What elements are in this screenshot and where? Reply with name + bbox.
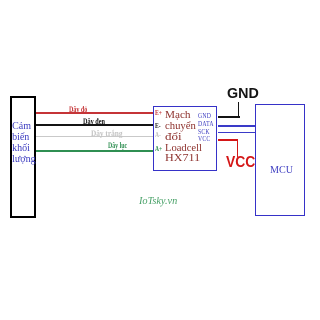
wire SCK bbox=[218, 132, 256, 134]
wire GND horizontal bbox=[218, 116, 240, 118]
load cell sensor label bbox=[12, 121, 36, 166]
label Dây trắng bbox=[91, 129, 122, 138]
watermark IoTsky.vn bbox=[139, 196, 177, 207]
wire green A+ bbox=[36, 150, 153, 152]
wire black E- bbox=[36, 124, 153, 126]
label Dây đỏ bbox=[69, 105, 87, 114]
pin GND bbox=[198, 112, 211, 120]
label Dây lục bbox=[108, 141, 127, 150]
pin SCK bbox=[198, 128, 210, 136]
pin E+ bbox=[155, 109, 162, 117]
wire VCC vertical bbox=[237, 139, 239, 157]
module title text bbox=[165, 110, 191, 121]
wire red E+ bbox=[36, 112, 153, 114]
wire DATA bbox=[218, 125, 256, 127]
MCU label bbox=[270, 164, 293, 176]
wire GND vertical bbox=[238, 102, 240, 117]
pin A- bbox=[155, 131, 161, 139]
MCU box U2 bbox=[255, 104, 305, 216]
pin DATA bbox=[198, 120, 214, 128]
pin E- bbox=[155, 122, 161, 130]
wire VCC horizontal bbox=[218, 139, 239, 141]
label Dây đen bbox=[83, 117, 105, 126]
HX711 module box U1 bbox=[153, 106, 218, 171]
GND net label bbox=[227, 86, 259, 102]
VCC net label bbox=[226, 154, 255, 172]
pin A+ bbox=[155, 145, 162, 153]
pin VCC bbox=[198, 135, 210, 143]
load cell sensor box bbox=[10, 96, 36, 218]
wire white A- bbox=[36, 136, 153, 138]
